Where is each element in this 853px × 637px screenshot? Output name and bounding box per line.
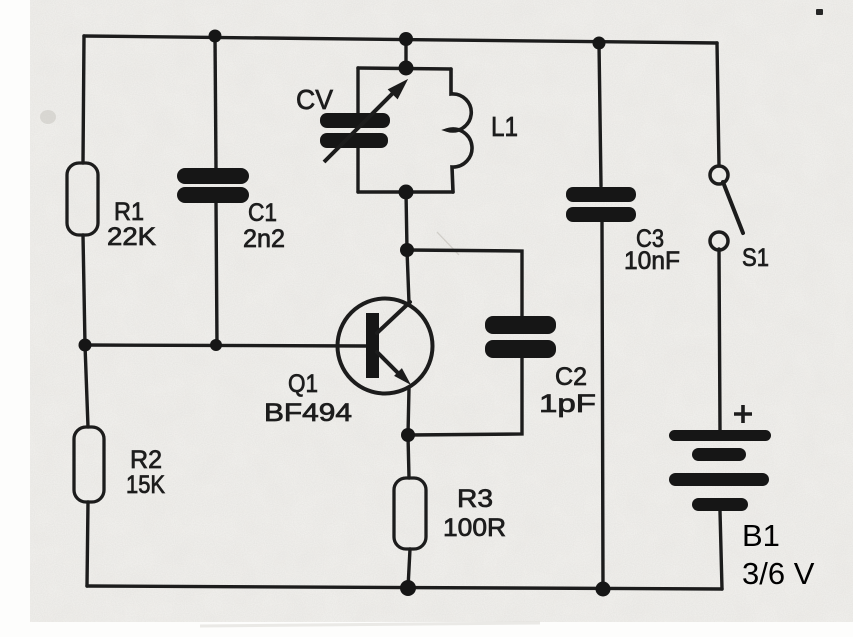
wire base rail <box>85 345 366 346</box>
node tank bottom edge <box>399 185 414 200</box>
wire C3 branch upper <box>599 43 601 186</box>
capacitor C2 <box>485 316 556 358</box>
node base-C1 <box>210 339 222 351</box>
wire tank bottom edge <box>358 190 453 193</box>
svg-text:22K: 22K <box>107 223 156 251</box>
node collector/C2 <box>400 243 414 257</box>
capacitor C1 <box>177 168 249 203</box>
node tank top edge <box>399 61 414 76</box>
wire stub to tank top <box>404 39 407 68</box>
switch S1 <box>710 166 743 250</box>
svg-text:2n2: 2n2 <box>243 225 285 253</box>
wire R3 to bottom rail <box>408 549 410 588</box>
wire node to R3 <box>408 435 409 478</box>
wire battery to bottom rail <box>720 511 722 589</box>
wire tank top edge <box>358 68 451 69</box>
node top-C1 <box>209 30 222 43</box>
wire switch to battery <box>719 249 720 430</box>
battery plus sign <box>734 405 752 423</box>
CV arrow <box>324 80 407 162</box>
svg-text:3/6 V: 3/6 V <box>742 556 815 591</box>
node bottom-R3 <box>400 580 416 596</box>
svg-text:R3: R3 <box>457 485 493 513</box>
svg-text:S1: S1 <box>742 244 769 272</box>
svg-text:15K: 15K <box>126 471 165 499</box>
wire left rail (R1 to base node) <box>83 235 85 345</box>
node dots <box>79 30 611 597</box>
node bottom-C3 <box>596 582 611 597</box>
wire left rail (base node to R2) <box>85 345 88 427</box>
svg-text:R1: R1 <box>114 198 144 226</box>
wire emitter to node <box>408 388 409 435</box>
wire tank left edge upper <box>356 68 359 114</box>
transistor Q1 <box>338 299 433 394</box>
svg-text:100R: 100R <box>443 514 506 542</box>
svg-text:10nF: 10nF <box>624 247 680 275</box>
wire switch branch upper <box>717 43 719 166</box>
wire tank left edge lower <box>356 147 359 192</box>
node top-tank <box>399 32 413 46</box>
svg-text:Q1: Q1 <box>288 370 318 398</box>
resistor R3 <box>394 478 426 549</box>
node top-C3 <box>593 37 606 50</box>
wire tank bottom to collector node <box>406 192 407 250</box>
speck artifact top right <box>816 9 823 15</box>
smudge artifact left <box>40 110 56 124</box>
battery B1 <box>669 430 771 511</box>
inductor L1 <box>447 69 472 192</box>
scratch artifact <box>437 232 459 255</box>
node emitter/C2 <box>401 428 415 442</box>
svg-text:C2: C2 <box>555 363 587 391</box>
svg-text:BF494: BF494 <box>264 399 352 427</box>
svg-text:1pF: 1pF <box>539 390 596 418</box>
node base-left <box>79 339 92 352</box>
wire C3 branch lower <box>602 222 603 589</box>
svg-text:B1: B1 <box>742 518 780 553</box>
wire C2 branch bottom <box>408 358 522 435</box>
capacitor C3 <box>566 187 636 222</box>
wire collector node to transistor <box>407 250 409 303</box>
wire bottom rail <box>87 586 722 589</box>
capacitor CV <box>320 113 390 148</box>
wire top rail <box>84 36 717 43</box>
svg-text:C1: C1 <box>248 199 277 227</box>
wire C2 branch top <box>407 250 522 316</box>
svg-text:R2: R2 <box>130 446 162 474</box>
svg-text:CV: CV <box>296 84 333 115</box>
wire C1 branch lower <box>216 202 217 345</box>
resistor R2 <box>74 427 104 502</box>
resistor R1 <box>67 163 98 235</box>
wire left rail lower (R2 to bottom) <box>87 502 88 586</box>
wire C1 branch upper <box>215 36 216 168</box>
wire left rail upper (top to R1) <box>83 36 84 163</box>
svg-text:L1: L1 <box>491 111 518 142</box>
